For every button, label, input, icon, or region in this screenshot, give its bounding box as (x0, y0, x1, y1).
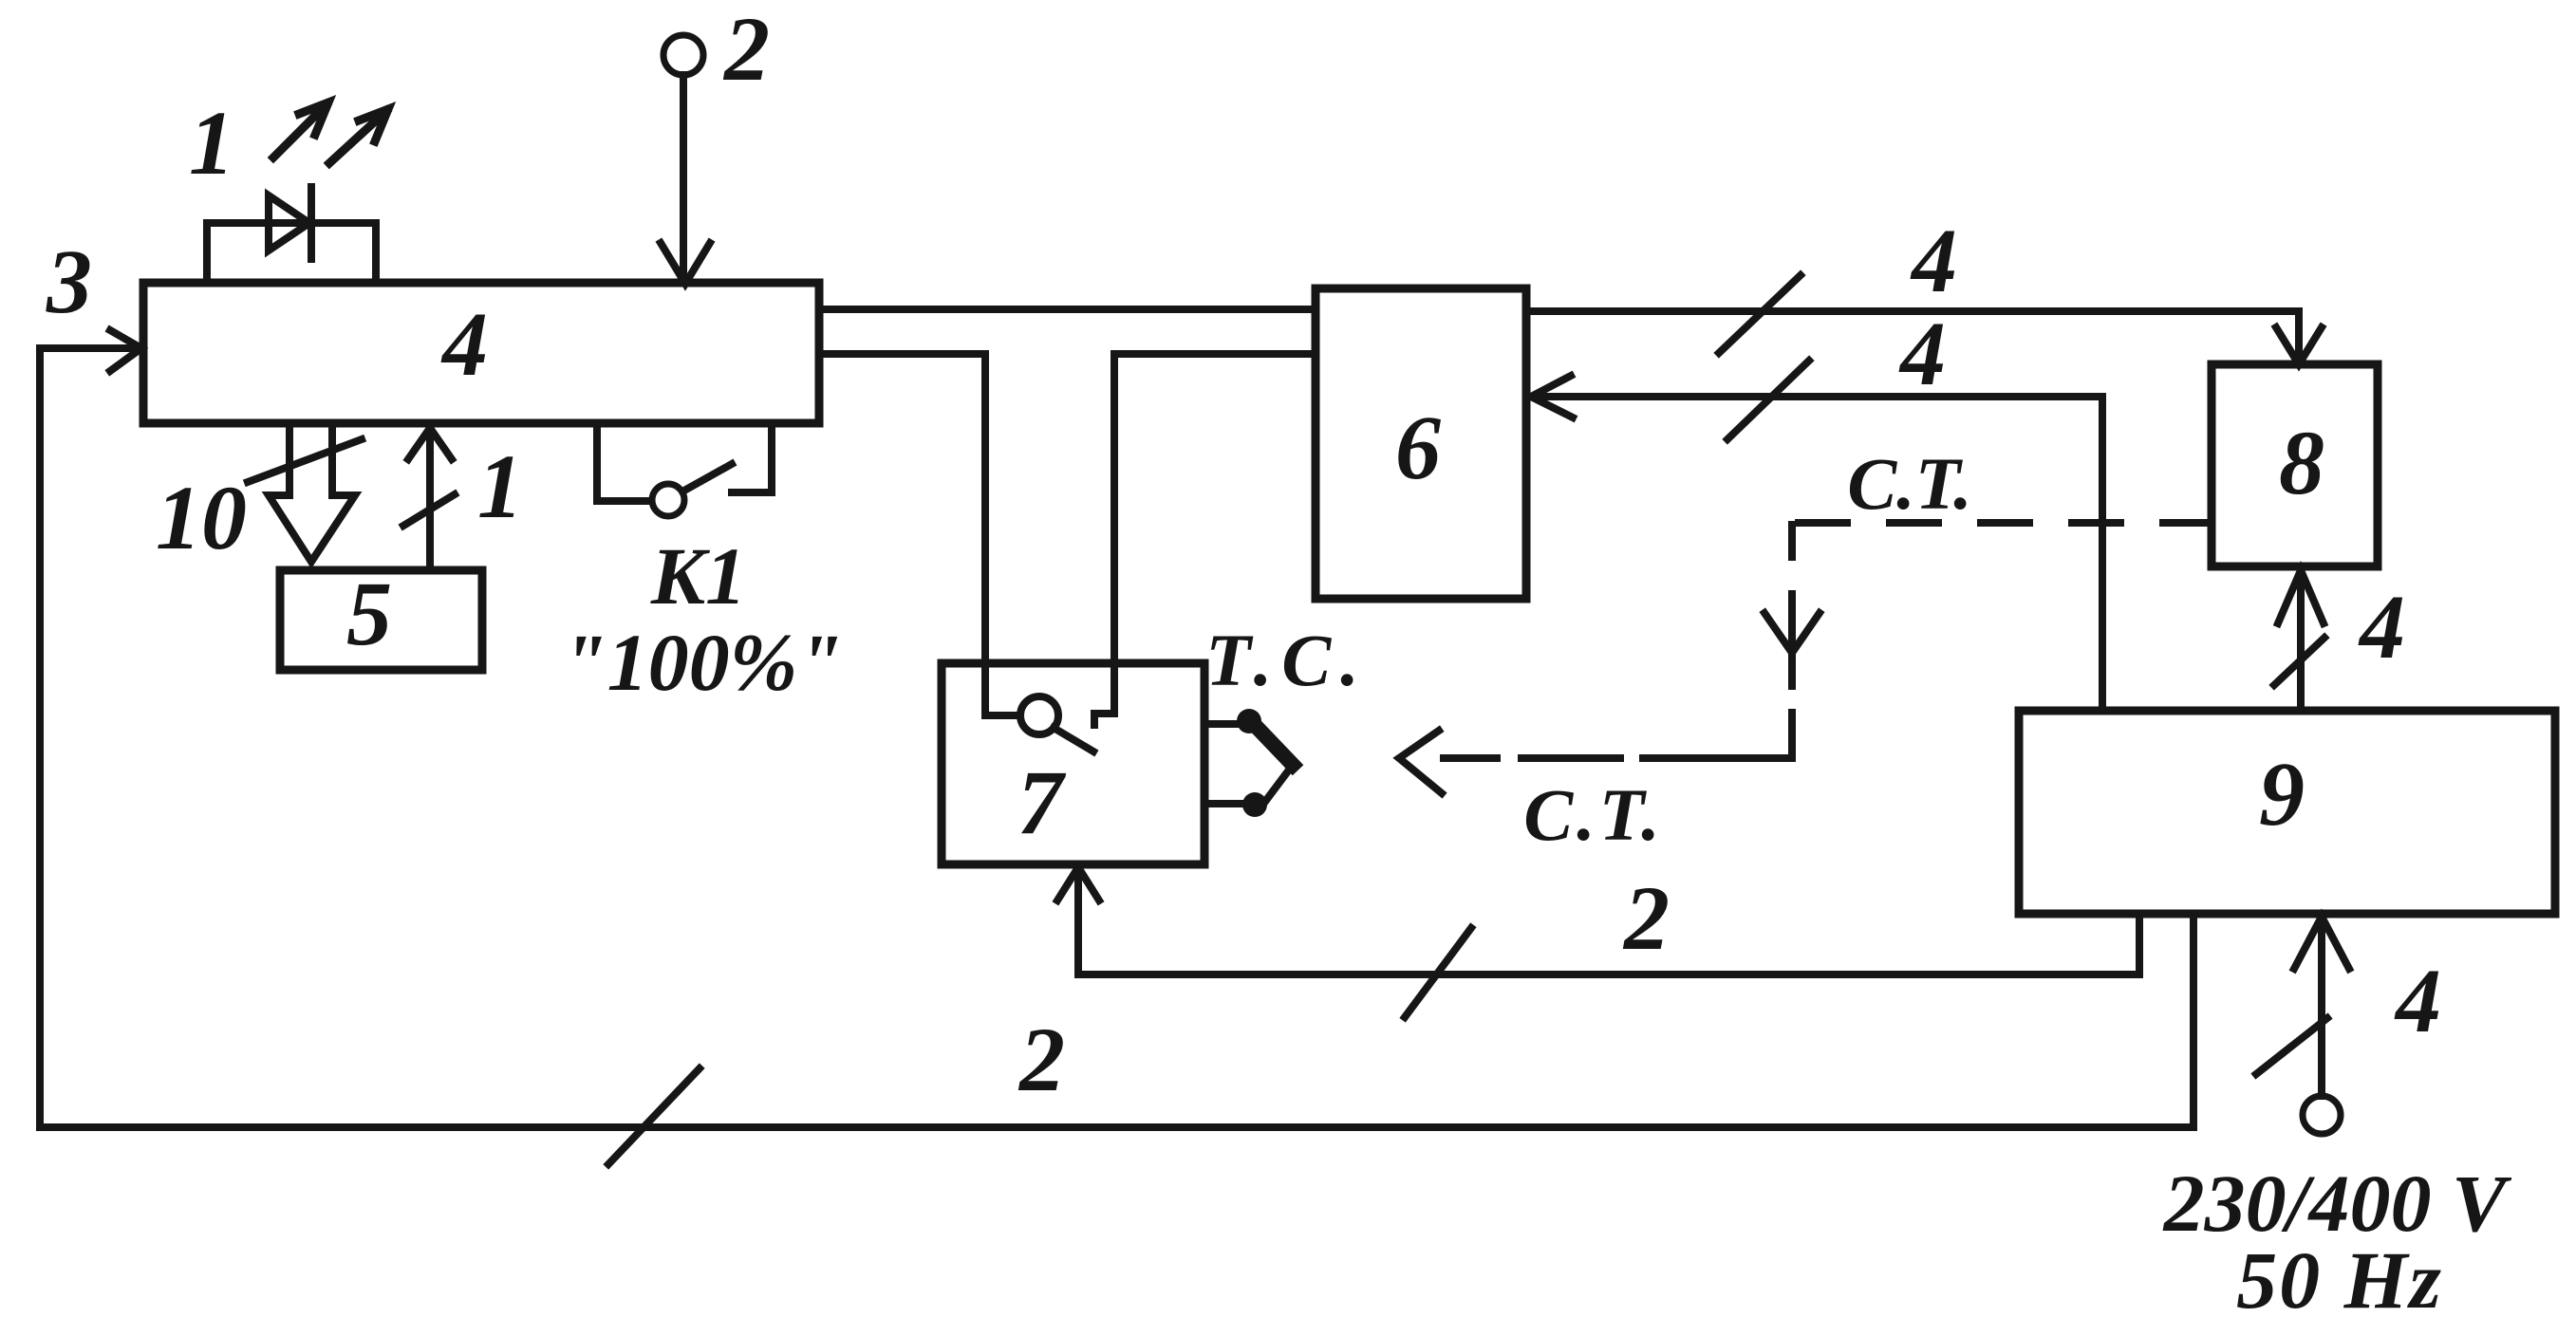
svg-text:K1: K1 (650, 530, 746, 622)
svg-text:"100%": "100%" (562, 617, 843, 708)
svg-text:4: 4 (2358, 576, 2405, 677)
svg-text:50 Hz: 50 Hz (2236, 1234, 2443, 1326)
svg-text:2: 2 (1622, 867, 1670, 969)
svg-text:2: 2 (722, 0, 770, 100)
svg-text:4: 4 (2394, 950, 2441, 1051)
svg-text:2: 2 (1017, 1009, 1065, 1110)
svg-text:C.T.: C.T. (1847, 442, 1972, 525)
svg-text:T.C.: T.C. (1205, 619, 1369, 701)
svg-text:10: 10 (156, 467, 247, 568)
svg-text:4: 4 (440, 293, 488, 395)
svg-text:7: 7 (1017, 751, 1067, 853)
svg-text:5: 5 (346, 563, 392, 664)
svg-text:9: 9 (2259, 743, 2305, 844)
svg-text:6: 6 (1395, 397, 1441, 498)
svg-text:8: 8 (2279, 412, 2324, 513)
svg-text:1: 1 (189, 92, 234, 194)
svg-text:3: 3 (46, 231, 92, 332)
svg-text:C.T.: C.T. (1523, 773, 1664, 856)
svg-text:4: 4 (1910, 210, 1957, 311)
svg-text:4: 4 (1898, 303, 1946, 404)
svg-text:1: 1 (477, 436, 523, 537)
